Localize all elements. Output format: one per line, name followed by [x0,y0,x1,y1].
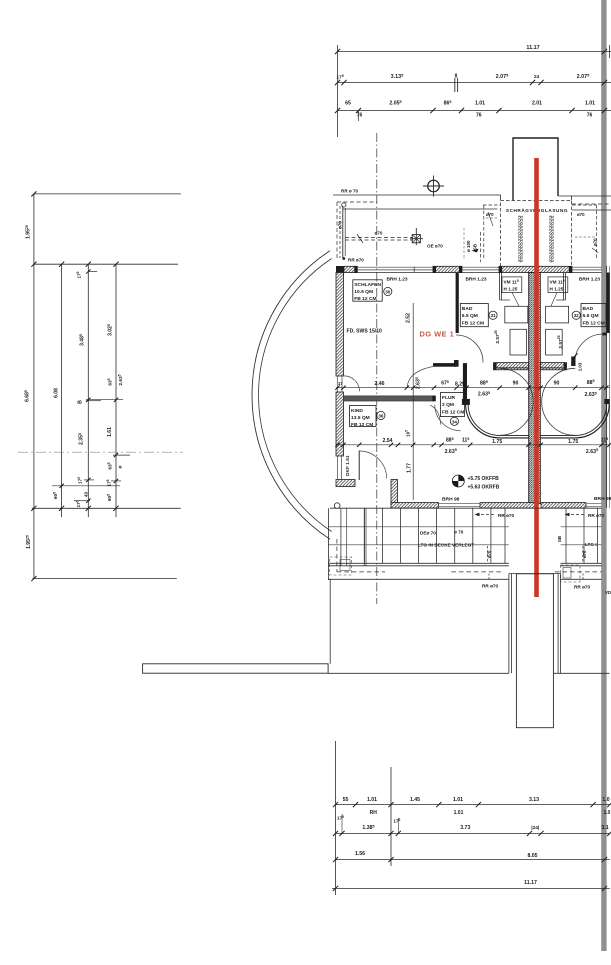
left dim tick 480 [84,478,121,483]
left dim horizontal top [31,191,181,196]
svg-text:ø: ø [119,465,124,468]
svg-text:2 QM: 2 QM [442,402,454,408]
section axis dashed line left [18,451,183,453]
svg-text:ø70: ø70 [338,221,343,229]
svg-text:ø70: ø70 [582,550,587,558]
room number 30 [384,287,392,295]
VM label box right [548,277,568,293]
VM shelf rects right [546,293,569,356]
left dim tick 485.8 [52,484,120,488]
party wall centre hatched [529,273,541,504]
building bottom line west [328,672,509,674]
svg-text:1.01: 1.01 [453,797,463,803]
svg-text:KIND: KIND [351,408,363,414]
FLUR left wall [463,363,467,400]
top dimension chain line 3 [335,100,611,121]
balcony corner boxes left [330,557,352,575]
room number 34 [450,417,458,425]
floor drain OE symbol [410,228,423,245]
small circle marker [334,503,340,509]
svg-text:FB 12 CM: FB 12 CM [462,320,484,326]
balcony deck verticals right [566,508,598,563]
svg-text:1.03: 1.03 [578,362,583,371]
corridor top wall jog [454,360,459,367]
svg-text:8.29: 8.29 [455,381,465,387]
bottom exterior wall hatched seg 3 [541,503,586,509]
svg-text:DKF 1.51: DKF 1.51 [345,455,351,476]
terrace ledge rect [143,664,329,673]
round room left semicircle [500,368,534,435]
svg-text:2.01: 2.01 [532,101,542,107]
VM label box left [502,277,522,293]
svg-text:1.61: 1.61 [107,427,113,437]
west wall line to terrace [329,579,331,664]
svg-text:1.0: 1.0 [604,810,611,816]
bottom wall window BRH98 [439,504,481,507]
left wall window gap ticks [337,376,342,392]
svg-text:ø70: ø70 [487,550,492,558]
svg-text:36: 36 [378,414,384,419]
label diameter 100 riser [464,228,471,260]
deck drop pipe left [487,546,492,562]
top wall window band 3 [572,267,602,272]
svg-text:LTG I: LTG I [585,542,597,547]
svg-text:90: 90 [554,381,560,387]
left-of-dormer gutter dashes [480,205,500,262]
svg-text:1.01: 1.01 [454,810,464,816]
svg-text:32: 32 [574,313,580,318]
svg-text:H 1.25: H 1.25 [504,287,518,292]
left dim vertical line 2 [61,264,63,517]
svg-text:1.01: 1.01 [475,101,485,107]
svg-text:RH: RH [370,810,378,816]
svg-text:RR ø 70: RR ø 70 [341,189,359,194]
svg-text:11.17: 11.17 [526,45,539,51]
balcony dashed boundary [337,539,602,572]
svg-text:2.46: 2.46 [374,381,384,387]
svg-text:1.01: 1.01 [585,101,595,107]
BAD left door arc [456,335,483,363]
grey party-wall bar right edge [602,0,607,951]
left gutter dashed outline [337,202,377,260]
balcony outer edge line west [328,578,509,580]
svg-text:H 1.25: H 1.25 [550,287,564,292]
room number 36 [377,411,385,419]
svg-text:RR ø70: RR ø70 [588,513,605,518]
round room right semicircle [542,368,576,435]
level marker compass [452,475,464,487]
dormer mullion strip left [519,216,523,262]
top exterior wall: corner block [336,266,344,276]
balcony outer edge line east [561,578,602,580]
top dimension chain line 11.17 [335,45,611,54]
svg-text:3.73: 3.73 [460,825,470,831]
VM closet wall right [556,273,565,301]
round room left curved band [466,404,529,438]
shaft outer east wall [558,574,561,674]
svg-text:FLUR: FLUR [442,395,456,401]
KIND door jamb [358,451,360,481]
svg-text:BRH 1.23: BRH 1.23 [579,276,600,282]
top walls of round rooms [494,367,567,369]
label RR70 balcony right [565,513,605,518]
bottom dim extension vertical 1 [335,741,337,895]
right-of-dormer gutter dashes [572,205,597,258]
svg-text:55: 55 [343,797,349,803]
left dim tick 455 [113,453,130,457]
svg-text:17: 17 [338,381,343,386]
chimney top rect [513,138,558,201]
left dim B marker [78,398,124,404]
BAD label box right [581,304,606,327]
svg-text:DEø 70: DEø 70 [420,531,436,536]
svg-text:24: 24 [534,74,540,80]
BAD right door jamb [571,333,606,372]
bottom dim chain line 4 [332,880,610,891]
balcony inner rail lines [341,508,347,566]
dormer glazing dashed box [501,201,572,268]
svg-text:OE ø70: OE ø70 [427,244,443,249]
top wall masonry pier 1 [433,266,462,272]
svg-text:SCHLAFEN: SCHLAFEN [354,282,381,288]
svg-text:BAD: BAD [462,306,473,312]
gutter slope pipe dashed [345,234,413,243]
svg-text:8: 8 [455,74,458,80]
round room right wall attach [604,399,609,404]
svg-text:ø70: ø70 [486,212,494,217]
bottom wall window right [586,504,602,507]
svg-text:2.54: 2.54 [382,438,392,444]
svg-text:VM 115: VM 115 [550,279,565,285]
bottom dim chain line 1 [333,797,611,807]
svg-text:FB 12 CM: FB 12 CM [351,422,373,428]
svg-text:76: 76 [476,113,482,119]
VM shelf rects left [505,293,528,356]
left dim vertical line 3 [87,264,89,517]
label RR70 shaft right [574,574,591,590]
svg-text:ø 70: ø 70 [454,530,464,535]
svg-text:+5.63 OKRFB: +5.63 OKRFB [468,485,500,491]
svg-text:ø70: ø70 [577,212,585,217]
top wall window band 2 [462,267,499,272]
roof overhang line lower [343,208,498,210]
left dim horizontal bottom [31,576,177,581]
svg-text:43: 43 [84,492,90,498]
svg-text:34: 34 [452,419,458,424]
left exterior wall upper [336,273,344,377]
bottom dim chain line 2 [333,814,611,836]
top dim extension verticals [337,45,339,137]
svg-text:10.5 QM: 10.5 QM [354,289,373,295]
svg-text:1.56: 1.56 [355,851,365,857]
balcony corner boxes right [561,565,581,582]
svg-text:1.01: 1.01 [367,797,377,803]
svg-text:RR ø70: RR ø70 [348,258,364,263]
svg-text:76: 76 [587,113,593,119]
svg-text:1.75: 1.75 [492,439,502,445]
room dimension line y387 [335,379,609,398]
SCHLAFEN label box [353,280,382,302]
bottom wall corner pier KIND [391,480,398,509]
centre axis dash-dot line [376,133,378,604]
svg-text:BAD: BAD [583,306,594,312]
room number 32 [572,311,580,319]
crosshair survey symbol [423,176,444,197]
corridor top wall piece A [433,363,456,367]
svg-text:FB 12 CM: FB 12 CM [583,320,605,326]
left lower corner wall piece [336,480,355,487]
VM closet wall left [500,273,510,301]
svg-text:VD: VD [605,590,611,595]
top dimension chain line 2 [335,73,611,92]
balcony horizontals [328,527,601,566]
svg-text:FB 12 CM: FB 12 CM [354,296,376,302]
right boundary wall lines [607,266,610,508]
svg-text:ø70: ø70 [375,231,383,236]
svg-text:76: 76 [357,113,363,119]
svg-text:1.0: 1.0 [602,797,609,803]
top wall masonry under dormer [499,266,572,272]
svg-text:11.17: 11.17 [524,880,537,886]
svg-text:VM 115: VM 115 [504,279,519,285]
svg-text:3.13: 3.13 [529,797,539,803]
roof eaves line right [559,196,611,210]
bottom exterior wall hatched seg 2 [480,503,537,509]
svg-text:RR ø70: RR ø70 [482,584,499,589]
svg-text:1.45: 1.45 [410,797,420,803]
svg-text:BRH 98: BRH 98 [594,496,611,502]
vertical dim line x413 [405,303,416,500]
svg-text:5.5 QM: 5.5 QM [462,313,478,319]
wall SCHLAFEN/BAD [456,273,459,334]
BAD-right bottom wall [541,363,567,370]
svg-text:FB 12 CM: FB 12 CM [442,409,464,415]
bottom dim row RH [370,810,611,816]
curved bay outer arc [252,251,330,540]
label RR70 balcony left [475,513,515,518]
svg-text:BRH 1.23: BRH 1.23 [465,276,486,282]
BAD-left bottom wall [494,363,529,370]
curved bay inner arc [259,259,332,532]
svg-text:2.52: 2.52 [405,313,411,323]
balcony west edge [327,508,329,580]
SCHLAFEN/KIND partition grey [344,396,436,402]
red section line [534,158,539,597]
svg-text:RR ø70: RR ø70 [574,585,591,590]
FLUR label box [440,393,464,417]
svg-text:5.5 QM: 5.5 QM [583,313,599,319]
hall dimension line y444.8 [335,437,611,455]
svg-text:6.08: 6.08 [54,388,60,398]
left dim vertical line 1 [33,194,35,579]
svg-text:SB: SB [557,535,562,542]
svg-text:DG WE 1: DG WE 1 [420,330,455,339]
svg-text:ø70: ø70 [593,238,598,246]
svg-text:1.77: 1.77 [406,463,412,473]
level text OKFFB [468,476,500,491]
svg-text:|24|: |24| [531,825,539,831]
KIND door arc [359,451,387,479]
left dim horizontal third [31,506,180,511]
bottom dim extension vertical 2 [390,767,392,866]
svg-text:65: 65 [345,101,351,107]
FLUR corner block [462,399,470,405]
svg-text:1.75: 1.75 [568,439,578,445]
svg-text:SB: SB [473,244,478,250]
bottom dim chain line 3 [333,851,610,862]
svg-text:90: 90 [513,381,519,387]
wall BAD-right at grey bar [606,273,609,334]
left wall door DKF glazing [338,456,342,479]
svg-text:+5.75 OKFFB: +5.75 OKFFB [468,476,500,482]
dormer mullion strip right [550,216,554,262]
svg-text:13.5 QM: 13.5 QM [351,415,370,421]
label RR70 shaft left [482,574,499,589]
balcony top edge [330,507,602,509]
left dim rotated labels [24,225,124,549]
FLUR door arc [435,405,461,431]
SCHLAFEN door arc [407,366,433,386]
downpipe RR [342,203,346,258]
svg-text:LTG IN DECKE VERLEGT: LTG IN DECKE VERLEGT [418,543,474,548]
shaft inner box [516,574,553,728]
svg-text:FD, SWS 15/10: FD, SWS 15/10 [347,329,383,335]
svg-text:3.1: 3.1 [601,825,608,831]
deck drop pipe right [582,546,587,562]
left exterior wall middle [336,392,344,456]
svg-text:8.05: 8.05 [527,853,537,859]
svg-text:BRH 98: BRH 98 [442,497,460,503]
left dim tick 500.7 [74,499,91,503]
svg-text:RR ø70: RR ø70 [498,513,515,518]
KIND label box [350,406,377,428]
roof eaves line upper [333,195,501,201]
shaft top line [509,573,561,575]
svg-text:30: 30 [385,290,391,295]
BAD right door arc [575,334,604,363]
label p70 rotated right [592,238,598,253]
label RR70 lower [342,257,364,262]
SCHLAFEN west door arc [344,376,360,392]
label SB rotated gutter [472,244,479,252]
left dim horizontal second [31,262,178,267]
svg-text:B: B [78,400,84,404]
balcony deck verticals left [365,508,506,563]
shaft outer west wall [509,574,512,674]
room number 31 [489,311,497,319]
bottom exterior wall hatched seg 1 [391,503,439,509]
FLUR west door arc [430,405,440,424]
building bottom line east [553,672,609,674]
round room right curved band [541,404,610,438]
left dim tick 17.5 top [76,269,97,278]
top wall window band 1 [357,267,433,273]
left dim vertical line 4 [115,264,117,517]
svg-text:ø 100: ø 100 [466,240,471,252]
balcony structural double lines [364,508,366,565]
top wall masonry pier 0 [344,266,357,272]
svg-text:31: 31 [490,313,496,318]
svg-text:BRH 1.23: BRH 1.23 [386,276,407,282]
BAD label box left [460,304,488,327]
dormer right top connector [571,196,573,201]
